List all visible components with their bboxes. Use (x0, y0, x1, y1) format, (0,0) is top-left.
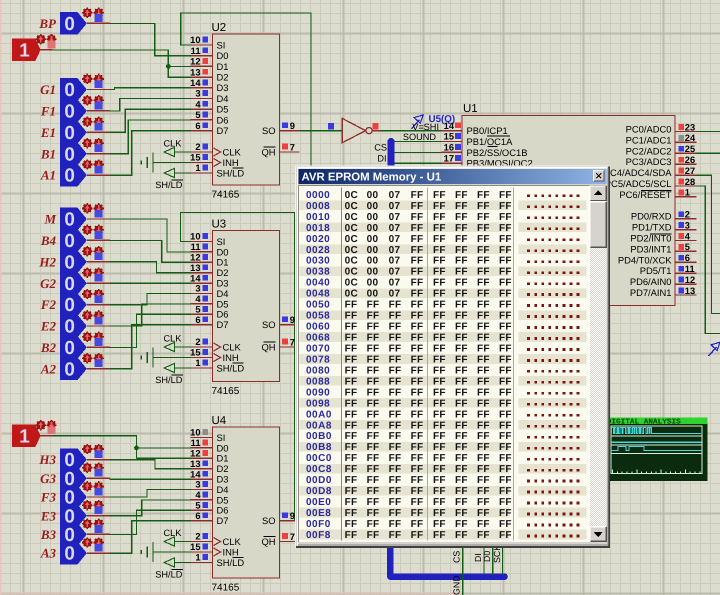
svg-text:D3: D3 (217, 278, 229, 289)
svg-text:0: 0 (64, 338, 75, 359)
digital analysis trace window (610, 418, 708, 482)
logic analyser clock trace (612, 427, 702, 433)
AVR EPROM memory window frame (296, 166, 610, 548)
svg-text:0078: 0078 (306, 355, 330, 366)
wire A3 to U4.D7 (110, 521, 191, 553)
svg-text:14: 14 (190, 469, 201, 479)
svg-text:7: 7 (290, 532, 295, 542)
logic state A1 (60, 164, 87, 187)
svg-text:U3: U3 (212, 219, 227, 231)
logic state B2 (60, 336, 87, 359)
svg-text:D7: D7 (217, 125, 229, 136)
svg-text:26: 26 (685, 155, 695, 165)
svg-text:F2: F2 (40, 297, 57, 312)
scrollbar down button (590, 526, 607, 542)
svg-text:F1: F1 (40, 104, 56, 119)
svg-text:10: 10 (190, 428, 200, 438)
svg-text:SO: SO (262, 515, 276, 526)
logic state A2 (60, 358, 87, 381)
svg-text:1: 1 (685, 188, 690, 198)
microcontroller U1 body (462, 116, 675, 306)
svg-text:CLK: CLK (164, 139, 183, 149)
svg-text:7: 7 (290, 143, 295, 153)
logic state B3 (60, 523, 87, 546)
svg-text:B2: B2 (40, 340, 57, 355)
svg-text:U2: U2 (212, 22, 227, 34)
svg-text:00E8: 00E8 (306, 508, 331, 519)
wire D0 vertical at bottom (492, 548, 494, 575)
wire H3 to U4.D2 (110, 460, 191, 469)
U2 INH ground symbol (140, 160, 142, 164)
svg-text:0: 0 (64, 210, 75, 231)
wire H2 to U3.D2 (110, 262, 191, 273)
svg-text:D6: D6 (217, 309, 229, 320)
memory window scrollbar (590, 185, 607, 541)
svg-text:PB1/OC1A: PB1/OC1A (467, 136, 514, 147)
svg-text:D0: D0 (482, 551, 492, 562)
U4 data input pins SI D0-D7 (190, 437, 212, 439)
svg-text:1: 1 (195, 358, 200, 368)
svg-text:0028: 0028 (306, 245, 330, 256)
logic state F1 (60, 100, 87, 123)
wire U1.PC2 to right edge (697, 152, 720, 154)
svg-text:SH/LD: SH/LD (217, 167, 245, 178)
svg-text:0098: 0098 (306, 398, 330, 409)
svg-text:H3: H3 (38, 452, 56, 467)
U2 data input pins SI D0-D7 (190, 44, 212, 46)
svg-text:0: 0 (64, 80, 75, 101)
svg-text:D5: D5 (217, 104, 229, 115)
svg-text:00E0: 00E0 (306, 497, 331, 508)
svg-text:CS: CS (374, 143, 387, 153)
shift register U3 74165 body (213, 231, 280, 382)
svg-text:0: 0 (64, 14, 75, 35)
svg-text:0038: 0038 (306, 267, 330, 278)
svg-text:SH/LD: SH/LD (217, 557, 245, 568)
svg-text:3: 3 (195, 480, 200, 490)
svg-text:PC2/ADC2: PC2/ADC2 (626, 145, 672, 156)
svg-text:D6: D6 (217, 114, 229, 125)
svg-text:INH: INH (223, 546, 239, 557)
svg-text:D7: D7 (217, 319, 229, 330)
svg-text:4: 4 (195, 99, 201, 109)
svg-text:00D8: 00D8 (306, 486, 332, 497)
svg-text:D7: D7 (217, 515, 229, 526)
wire E1 to U2.D5 (110, 109, 191, 132)
svg-text:QH: QH (261, 536, 275, 547)
svg-text:0000: 0000 (306, 190, 330, 201)
svg-text:0030: 0030 (306, 256, 330, 267)
svg-text:0020: 0020 (306, 234, 330, 245)
svg-text:6: 6 (685, 253, 690, 263)
wire F2 to U3.D4 (110, 294, 191, 305)
svg-text:D2: D2 (217, 72, 229, 83)
logic state H3 (60, 448, 87, 471)
svg-text:00D0: 00D0 (306, 475, 332, 486)
wire U1.PC0 to right edge (697, 131, 720, 133)
svg-text:0088: 0088 (306, 376, 330, 387)
svg-text:16: 16 (444, 143, 454, 153)
svg-text:0070: 0070 (306, 344, 330, 355)
svg-text:D0: D0 (217, 246, 229, 257)
svg-text:SH/LD: SH/LD (217, 362, 245, 373)
svg-text:0: 0 (64, 359, 75, 380)
wire E2 to U3.D5 (110, 304, 191, 326)
wire G1 to U2.D3 (110, 88, 191, 90)
svg-text:00B8: 00B8 (306, 442, 332, 453)
svg-text:SO: SO (262, 125, 276, 136)
logic state G2 (60, 272, 87, 295)
svg-text:0058: 0058 (306, 311, 330, 322)
title bar close button (594, 170, 604, 181)
svg-text:0060: 0060 (306, 322, 330, 333)
logic state M (60, 208, 87, 231)
memory window content area (299, 185, 590, 541)
svg-text:QH: QH (261, 146, 275, 157)
svg-text:2: 2 (195, 142, 200, 152)
wire logic 1 to U2.D1 and U2.D2 (52, 50, 190, 77)
wire B4 to U3.D1 (110, 240, 191, 262)
svg-text:4: 4 (685, 231, 691, 241)
svg-text:74165: 74165 (212, 583, 240, 594)
wire E3 to U4.D5 (110, 500, 191, 516)
wire U2.SI feedback loop (181, 13, 311, 166)
svg-text:17: 17 (444, 154, 454, 164)
wire DI to U1.PB3 (394, 162, 441, 164)
scrollbar up button (590, 185, 607, 201)
svg-text:28: 28 (685, 177, 695, 187)
svg-text:0008: 0008 (306, 201, 330, 212)
svg-text:D4: D4 (217, 484, 229, 495)
wire U3.SI from U4.SO cascade (180, 213, 294, 521)
svg-text:AVR EPROM Memory - U1: AVR EPROM Memory - U1 (302, 172, 442, 184)
svg-text:4: 4 (195, 490, 201, 500)
svg-text:D2: D2 (217, 463, 229, 474)
svg-text:1: 1 (19, 426, 30, 447)
svg-text:B4: B4 (40, 233, 57, 248)
svg-text:1: 1 (195, 163, 200, 173)
overline on INT0 (650, 233, 672, 235)
U4 control pins CLK INH SH/LD (190, 541, 212, 543)
U1 right pins PC0-PC6 PD0-PD7 (675, 131, 697, 133)
svg-text:00A0: 00A0 (306, 409, 332, 420)
U3 INH ground symbol (140, 355, 142, 359)
logic state E2 (60, 315, 87, 338)
wire CS to U1.PB2 (394, 151, 441, 153)
svg-text:G3: G3 (40, 471, 56, 486)
overline on SS (488, 146, 498, 148)
svg-text:6: 6 (195, 121, 200, 131)
svg-text:0: 0 (64, 295, 75, 316)
wire A1 to U2.D7 (110, 131, 191, 176)
svg-text:11: 11 (685, 264, 695, 274)
wire A2 to U3.D7 (110, 325, 191, 369)
svg-text:D0: D0 (217, 442, 229, 453)
svg-text:CLK: CLK (164, 334, 183, 344)
svg-text:D0: D0 (217, 50, 229, 61)
svg-text:0: 0 (64, 144, 75, 165)
svg-text:D6: D6 (217, 505, 229, 516)
svg-text:6: 6 (195, 315, 200, 325)
svg-text:A1: A1 (40, 168, 56, 183)
wire G2 to U3.D3 (110, 282, 191, 284)
logic state 1 (bottom) (12, 425, 41, 448)
svg-text:PD4/T0/XCK: PD4/T0/XCK (618, 254, 672, 265)
logic state B1 (60, 142, 87, 165)
svg-text:6: 6 (195, 511, 200, 521)
svg-text:13: 13 (190, 67, 200, 77)
svg-text:74165: 74165 (212, 386, 240, 397)
svg-text:0090: 0090 (306, 387, 330, 398)
svg-text:1: 1 (195, 553, 200, 563)
sheet edge bottom (0, 592, 462, 594)
U2 SH/LD source symbol (164, 168, 174, 177)
logic state 1 (top) (12, 39, 41, 62)
logic state F2 (60, 293, 87, 316)
logic state B4 (60, 229, 87, 252)
svg-text:D1: D1 (217, 61, 229, 72)
svg-text:B1: B1 (40, 146, 56, 161)
svg-text:PD5/T1: PD5/T1 (640, 265, 672, 276)
svg-text:PD1/TXD: PD1/TXD (632, 222, 672, 233)
svg-text:2: 2 (685, 210, 690, 220)
sheet edge left (0, 0, 2, 595)
svg-text:D5: D5 (217, 494, 229, 505)
shift register U2 74165 body (213, 34, 280, 185)
logic state BP (60, 12, 87, 35)
svg-text:0: 0 (64, 544, 75, 565)
U3 SH/LD source symbol (164, 363, 174, 372)
svg-text:0: 0 (64, 274, 75, 295)
svg-text:13: 13 (190, 263, 200, 273)
junction dot U2.D1 node (166, 64, 171, 69)
svg-text:2: 2 (195, 337, 200, 347)
wire SOUND to U1.PB1 (394, 141, 441, 143)
logic probe square on inverter input (328, 123, 334, 129)
wire B2 to U3.D6 (110, 314, 191, 347)
svg-text:0050: 0050 (306, 300, 330, 311)
svg-text:9: 9 (290, 511, 295, 521)
bus segment below memory window (390, 547, 504, 577)
svg-text:15: 15 (190, 542, 200, 552)
svg-text:B3: B3 (40, 527, 57, 542)
svg-text:00F0: 00F0 (306, 519, 331, 530)
svg-text:SH/LD: SH/LD (155, 375, 182, 385)
svg-text:0068: 0068 (306, 333, 330, 344)
svg-text:CLK: CLK (223, 536, 242, 547)
logic analyser data trace (611, 446, 702, 450)
svg-text:SOUND: SOUND (403, 132, 437, 142)
wire U1.PC4 down right (697, 175, 720, 313)
overline on OC1A (487, 135, 510, 137)
U1 left pins PB0-PB3 (442, 130, 463, 132)
svg-text:PB0/ICP1: PB0/ICP1 (467, 125, 508, 136)
wire SCK vertical at bottom (501, 548, 503, 575)
svg-text:15: 15 (444, 132, 454, 142)
svg-text:D3: D3 (217, 474, 229, 485)
wire F3 to U4.D4 (110, 490, 191, 498)
svg-text:00B0: 00B0 (306, 431, 332, 442)
U3 data input pins SI D0-D7 (190, 241, 212, 243)
svg-text:23: 23 (685, 122, 695, 132)
svg-text:10: 10 (190, 232, 200, 242)
U2 control pins CLK INH SH/LD (190, 151, 212, 153)
svg-text:PD0/RXD: PD0/RXD (631, 211, 672, 222)
svg-text:M: M (43, 212, 56, 227)
svg-text:INH: INH (223, 352, 239, 363)
svg-text:7: 7 (290, 338, 295, 348)
svg-text:U4: U4 (212, 415, 227, 427)
bus segment above memory window (388, 142, 395, 167)
svg-text:11: 11 (191, 46, 201, 56)
svg-text:0: 0 (64, 102, 75, 123)
U3 control pins CLK INH SH/LD (190, 346, 212, 348)
svg-text:H2: H2 (38, 254, 56, 269)
svg-text:DI: DI (377, 154, 386, 164)
memory window column separators (341, 188, 343, 541)
svg-text:14: 14 (190, 273, 201, 283)
svg-text:SH/LD: SH/LD (155, 180, 182, 190)
svg-text:QH: QH (261, 341, 275, 352)
svg-text:PC0/ADC0: PC0/ADC0 (626, 124, 672, 135)
svg-text:0048: 0048 (306, 289, 330, 300)
logic state E1 (60, 121, 87, 144)
wire B3 to U4.D6 (110, 510, 191, 534)
svg-text:PD7/AIN1: PD7/AIN1 (630, 287, 672, 298)
svg-text:G2: G2 (40, 276, 56, 291)
svg-text:D3: D3 (217, 82, 229, 93)
svg-text:D4: D4 (217, 93, 229, 104)
svg-text:2: 2 (195, 532, 200, 542)
svg-text:E1: E1 (40, 125, 56, 140)
svg-text:1: 1 (19, 41, 30, 62)
logic analyser time axis (613, 470, 700, 474)
svg-text:00A8: 00A8 (306, 420, 332, 431)
svg-text:11: 11 (191, 242, 201, 252)
svg-text:E3: E3 (40, 508, 57, 523)
svg-text:3: 3 (685, 220, 690, 230)
svg-text:PC4/ADC4/SDA: PC4/ADC4/SDA (604, 167, 672, 178)
wire logic 1 to U4.D0 and U4.D1 (52, 436, 190, 448)
svg-text:14: 14 (444, 121, 455, 131)
svg-text:D1: D1 (217, 453, 229, 464)
svg-text:11: 11 (191, 438, 201, 448)
svg-text:5: 5 (195, 110, 200, 120)
logic state F3 (60, 486, 87, 509)
svg-text:5: 5 (685, 242, 690, 252)
svg-text:CLK: CLK (164, 528, 183, 538)
svg-text:15: 15 (190, 153, 200, 163)
voltage probe right (709, 347, 717, 356)
svg-text:14: 14 (190, 78, 201, 88)
U4 INH ground symbol (140, 550, 142, 554)
svg-text:15: 15 (190, 348, 200, 358)
svg-text:D5: D5 (217, 298, 229, 309)
svg-text:00C0: 00C0 (306, 453, 332, 464)
svg-text:PD6/AIN0: PD6/AIN0 (630, 276, 672, 287)
U4 output pins SO QH (280, 520, 300, 522)
svg-text:D1: D1 (217, 257, 229, 268)
logic state A3 (60, 542, 87, 565)
U3 output pins SO QH (280, 324, 300, 326)
logic probe square on inverter output (372, 123, 378, 129)
overline on RESET (641, 189, 672, 191)
svg-text:12: 12 (190, 57, 200, 67)
svg-text:12: 12 (190, 253, 200, 263)
svg-text:0010: 0010 (306, 212, 330, 223)
wire M to U3.D0 (110, 219, 191, 252)
svg-text:PC5/ADC5/SCL: PC5/ADC5/SCL (605, 178, 672, 189)
svg-text:0: 0 (64, 166, 75, 187)
svg-text:CLK: CLK (223, 341, 242, 352)
wire BP to U2.D0 (110, 23, 191, 55)
svg-text:27: 27 (685, 166, 695, 176)
svg-text:00F8: 00F8 (306, 530, 331, 541)
svg-text:V=SHI: V=SHI (412, 122, 439, 132)
svg-text:SI: SI (217, 236, 226, 247)
svg-text:9: 9 (290, 121, 295, 131)
svg-text:00C8: 00C8 (306, 464, 332, 475)
svg-text:3: 3 (195, 89, 200, 99)
svg-text:12: 12 (685, 275, 695, 285)
logic analyser trace 2 (611, 441, 702, 443)
svg-text:4: 4 (195, 294, 201, 304)
svg-text:A3: A3 (40, 546, 57, 561)
svg-text:PD3/INT1: PD3/INT1 (630, 243, 671, 254)
svg-text:0018: 0018 (306, 223, 330, 234)
wire B1 to U2.D6 (110, 120, 191, 154)
svg-text:10: 10 (190, 35, 200, 45)
svg-text:9: 9 (290, 315, 295, 325)
svg-text:SI: SI (217, 39, 226, 50)
logic state G3 (60, 467, 87, 490)
memory dump rows (300, 201, 342, 211)
svg-text:25: 25 (685, 144, 695, 154)
U4 SH/LD source symbol (164, 558, 174, 567)
logic state E3 (60, 504, 87, 527)
svg-text:0080: 0080 (306, 365, 330, 376)
U2 output pins SO QH (280, 130, 300, 132)
svg-text:13: 13 (685, 286, 695, 296)
svg-text:D2: D2 (217, 267, 229, 278)
svg-text:0040: 0040 (306, 278, 330, 289)
svg-text:D4: D4 (217, 288, 229, 299)
svg-text:SO: SO (262, 319, 276, 330)
wire DI vertical at bottom (483, 548, 485, 575)
svg-text:PB2/SS/OC1B: PB2/SS/OC1B (467, 147, 528, 158)
svg-text:0: 0 (64, 123, 75, 144)
svg-text:INH: INH (223, 157, 239, 168)
svg-text:G1: G1 (40, 82, 56, 97)
svg-text:A2: A2 (40, 361, 57, 376)
svg-text:0: 0 (64, 317, 75, 338)
wire G3 to U4.D3 (110, 478, 191, 480)
svg-text:74165: 74165 (212, 190, 240, 201)
svg-text:5: 5 (195, 501, 200, 511)
voltage probe U5(Q) (412, 120, 420, 129)
logic state H2 (60, 251, 87, 274)
svg-text:GND: GND (452, 575, 462, 595)
logic state G1 (60, 78, 87, 101)
svg-text:DIGITAL ANALYSIS: DIGITAL ANALYSIS (607, 418, 682, 426)
wire CS vertical at bottom (462, 548, 464, 595)
svg-text:E2: E2 (40, 319, 57, 334)
svg-text:CS: CS (452, 551, 462, 563)
svg-text:U1: U1 (463, 103, 478, 115)
svg-text:12: 12 (190, 449, 200, 459)
shift register U4 74165 body (213, 427, 280, 578)
wire U1.PC5 down right (697, 186, 720, 334)
